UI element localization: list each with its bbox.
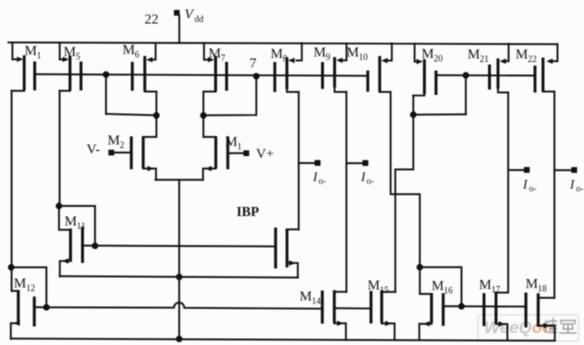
node A junction [103,71,110,78]
transistor M9 [314,43,347,92]
svg-text:16: 16 [444,285,454,295]
wire node 7 to M1 drain [203,76,256,115]
svg-text:V+: V+ [256,147,274,162]
svg-text:I: I [569,177,575,192]
Vdd terminal [174,8,204,25]
transistor M12 [11,277,47,339]
wire Io-2 tap [347,162,363,164]
Io3 output terminal [522,167,537,194]
Io-1 output terminal [312,160,326,186]
wire M12 diode link [11,267,46,307]
svg-text:8: 8 [283,53,288,63]
node M5/M11 drain junction [56,203,63,210]
svg-text:V: V [185,8,195,23]
wire right gate line [443,305,526,307]
svg-text:M: M [314,46,327,61]
transistor M7 [203,43,226,116]
svg-text:M: M [123,43,136,58]
svg-text:M: M [432,279,445,294]
svg-text:9: 9 [326,52,331,62]
svg-text:M: M [347,46,360,61]
svg-text:5: 5 [76,51,81,61]
svg-text:M: M [108,134,121,149]
wire M5 drain column [59,91,61,206]
node M12 gate junction [43,304,50,311]
svg-text:18: 18 [538,283,548,293]
node M20 drain junction [410,111,417,118]
svg-text:M: M [516,48,529,63]
transistor M1 input [203,115,242,179]
wire M11 diode link [59,206,95,246]
svg-text:20: 20 [434,53,444,63]
svg-text:o-: o- [367,176,375,186]
transistor M11 [59,206,85,276]
transistor M1 [12,43,42,91]
transistor M15 [368,279,396,341]
Io-2 output terminal [360,160,374,186]
wire Io4 tap [555,169,572,171]
wire node A to M2 drain [106,114,156,115]
wire M16 drain link [420,267,432,294]
wire M1 gate to V+ [228,152,244,154]
svg-text:M: M [526,277,539,292]
svg-text:22: 22 [528,54,537,64]
svg-text:V-: V- [87,143,101,158]
svg-text:14: 14 [312,296,322,306]
svg-text:15: 15 [380,285,390,295]
svg-text:dd: dd [195,14,205,24]
svg-text:M: M [422,47,435,62]
wire V- to M2 gate [114,152,131,154]
svg-text:21: 21 [480,54,489,64]
wire gate rail M1-M10 [35,74,367,76]
node M7/M1 drain junction [200,112,207,119]
transistor M20 [413,44,443,96]
transistor M6 [123,43,157,116]
svg-text:I: I [360,169,366,184]
svg-text:M: M [368,279,381,294]
svg-text:17: 17 [491,284,501,294]
svg-text:1: 1 [37,51,42,61]
svg-text:M: M [479,278,492,293]
svg-text:M: M [468,48,481,63]
wire Vdd stub [178,16,180,44]
svg-text:I: I [522,177,528,192]
svg-text:M: M [300,290,313,305]
svg-text:12: 12 [26,283,35,293]
svg-text:22: 22 [145,13,159,28]
wire gate rail M20-M22 [436,74,535,76]
wire M10 drain jog [391,92,420,267]
transistor IBP bias [276,229,299,278]
node M11 gate junction [92,243,99,250]
node M12 drain junction [8,264,15,271]
node M16 gate junction [458,303,465,310]
svg-text:7: 7 [250,57,257,72]
svg-text:M: M [271,47,284,62]
transistor M17 [479,278,508,340]
wire M22 drain column [553,92,555,298]
svg-text:o-: o- [576,184,584,194]
wire M14 drain to M15 gate [334,307,371,309]
svg-text:7: 7 [221,53,226,63]
wire Io3 tap [508,169,524,171]
wire M8 drain column [298,92,300,230]
wire M20 drain jog [395,96,413,292]
wire tail source line [60,276,298,277]
svg-text:M: M [65,215,78,230]
svg-text:M: M [64,45,77,60]
transistor M10 [347,43,392,92]
svg-text:11: 11 [77,221,86,231]
wire M9 drain column [345,92,347,292]
svg-text:M: M [225,135,238,150]
wire bottom rail [11,339,555,341]
node tail ground junction [176,336,183,343]
wire Io-1 tap [299,162,315,164]
transistor M5 [60,43,81,91]
node 7 [250,57,260,80]
wire tail line [178,180,180,339]
transistor M2 [108,115,157,179]
svg-text:6: 6 [135,49,140,59]
wire M20 gate drop [465,75,467,114]
wire node A drop [105,75,107,114]
wire pair common source [156,179,204,181]
node M20 gate junction [463,72,470,79]
wire M16 diode link [420,267,462,306]
wire M20 gate to drain link [413,113,466,115]
wire M12 gate line to M14 [46,303,322,309]
svg-text:1: 1 [237,141,242,151]
svg-text:M: M [14,277,27,292]
transistor M16 [419,279,453,340]
V+ input terminal [243,147,274,162]
svg-text:M: M [25,44,38,59]
watermark [478,315,579,341]
wire M1 drain column [11,91,13,291]
transistor M18 [526,277,555,341]
transistor M14 [300,290,347,340]
svg-text:I: I [312,169,318,184]
svg-text:10: 10 [359,52,369,62]
svg-text:WeeQoo: WeeQoo [484,318,553,337]
node M16 drain junction [417,264,424,271]
transistor M22 [516,44,558,91]
svg-text:o-: o- [529,184,537,194]
svg-text:M: M [209,47,222,62]
wire Vdd top rail [9,42,558,44]
node M6/M2 drain junction [153,112,160,119]
transistor M21 [468,44,509,93]
node tail junction [176,274,183,281]
V- input terminal [87,143,115,158]
svg-text:2: 2 [120,140,125,150]
svg-text:o-: o- [319,176,327,186]
Io4 output terminal [569,167,584,193]
transistor M8 [271,43,302,92]
svg-text:IBP: IBP [237,204,260,219]
wire M21 drain column [507,92,509,292]
wire M11 gate line to IBP gate [83,245,276,248]
